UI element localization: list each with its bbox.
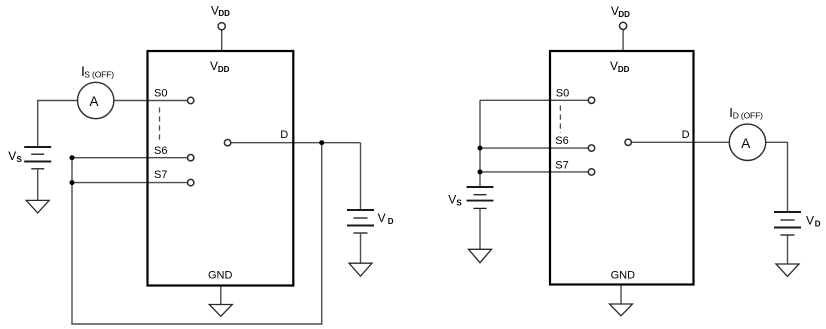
svg-text:S0: S0: [154, 88, 167, 100]
svg-text:D: D: [388, 217, 394, 226]
svg-text:V: V: [378, 211, 386, 225]
svg-text:S6: S6: [555, 135, 568, 147]
svg-text:A: A: [741, 136, 750, 151]
svg-text:DD: DD: [218, 65, 230, 74]
svg-text:S7: S7: [154, 169, 167, 181]
svg-text:S0: S0: [556, 88, 569, 100]
svg-text:D: D: [815, 219, 821, 228]
svg-text:S6: S6: [154, 145, 167, 157]
svg-text:DD: DD: [618, 65, 630, 74]
svg-text:DD: DD: [618, 10, 630, 19]
svg-text:V: V: [8, 149, 16, 163]
svg-text:V: V: [610, 59, 618, 73]
svg-text:V: V: [806, 214, 814, 228]
svg-text:DD: DD: [218, 9, 230, 18]
svg-text:S7: S7: [555, 159, 568, 171]
svg-text:S: S: [456, 199, 462, 208]
svg-text:D (OFF): D (OFF): [733, 110, 763, 120]
svg-text:V: V: [210, 59, 218, 73]
svg-text:V: V: [448, 193, 456, 207]
svg-text:A: A: [89, 94, 98, 109]
svg-text:D: D: [280, 129, 288, 141]
svg-text:GND: GND: [208, 270, 233, 282]
svg-text:GND: GND: [611, 270, 636, 282]
svg-text:D: D: [682, 129, 690, 141]
svg-text:S (OFF): S (OFF): [84, 69, 114, 79]
svg-text:S: S: [17, 155, 23, 164]
